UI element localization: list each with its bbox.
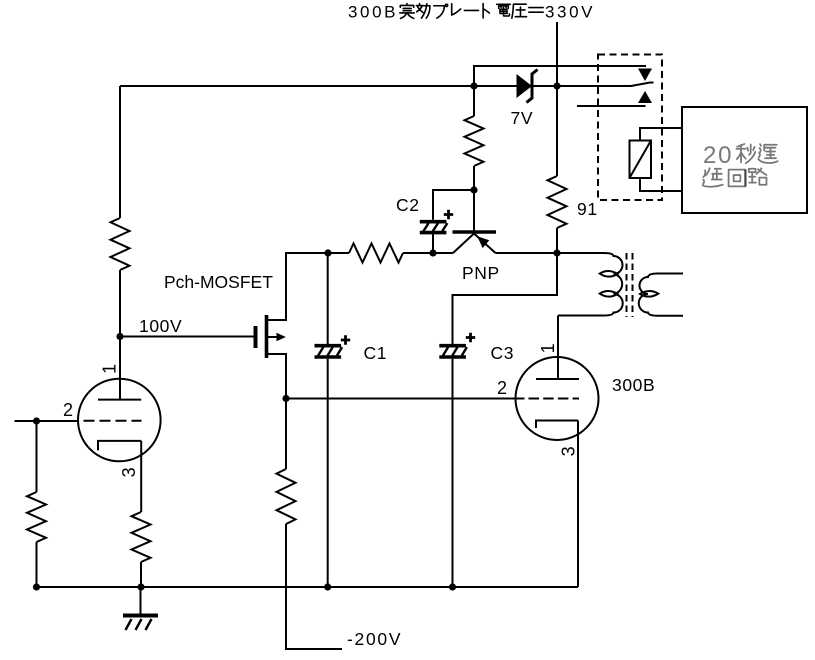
svg-text:Pch-MOSFET: Pch-MOSFET (164, 272, 273, 292)
svg-text:300B: 300B (612, 375, 655, 395)
wire: 100V gate wire (120, 336, 254, 338)
wire: R2 to ground rail (36, 542, 38, 587)
resistor R6 91 ohm (548, 176, 567, 228)
wire: zener anode drop x=474 (473, 86, 475, 116)
wire: R5 to PNP base node (473, 166, 475, 190)
svg-text:1: 1 (538, 343, 558, 354)
svg-text:91: 91 (577, 199, 598, 219)
capacitor C2 (420, 210, 453, 233)
tube 300B plate (536, 378, 579, 380)
wire: relay coil to delay box (bottom) (640, 178, 682, 191)
relay NC contact arrow (down) (638, 69, 652, 82)
tube V1 plate (98, 399, 141, 401)
relay boundary (dashed box) (598, 55, 662, 201)
transformer T1 core (dashed) (627, 253, 633, 317)
wire: C1 top lead from drain node (327, 253, 329, 344)
node C1 top / MOSFET drain (324, 249, 331, 256)
relay NO contact arrow (up) (638, 91, 652, 103)
svg-text:7V: 7V (511, 108, 534, 128)
transformer T1 primary petal lower (600, 291, 618, 297)
wire: C1 bottom lead to ground rail (327, 359, 329, 587)
node 100V gate (116, 333, 123, 340)
wire: emitter node down and across to C3 top (453, 253, 558, 344)
transistor Q2 Pch-MOSFET (256, 315, 287, 358)
svg-text:300B: 300B (348, 3, 398, 22)
resistor R5 (PNP base feed) (465, 116, 484, 166)
svg-text:2: 2 (497, 378, 508, 398)
svg-text:C1: C1 (364, 343, 388, 363)
tube 300B grid (dashed) (529, 398, 580, 400)
relay coil K1 (630, 141, 652, 179)
node zener cathode 330V rail (553, 82, 560, 89)
node PNP base / C2 top (470, 186, 477, 193)
title text: 300B jikkou plate voltage = 330V (348, 3, 595, 22)
wire: ground rail (37, 586, 579, 588)
wire: MOSFET source to node (268, 354, 286, 399)
wire: R4 to -200V terminal (286, 524, 342, 649)
wire: left rail lower to driver tube plate (119, 270, 121, 400)
node ground rail left end (33, 583, 40, 590)
resistor R7 (horizontal) (349, 244, 403, 263)
capacitor C1 (315, 335, 351, 357)
node C3 bottom on ground rail (449, 583, 456, 590)
resistor R1 (left rail) (111, 218, 130, 270)
wire: 300B cathode lead to rail (577, 421, 579, 588)
tube V1 driver envelope (78, 379, 161, 462)
wire: MOSFET drain riser to node (268, 253, 328, 320)
wire: grid-leak drop x=36.5 (36, 421, 38, 492)
node MOSFET source / 300B grid wire (282, 395, 289, 402)
wire: R7 to C2 node / PNP collector (403, 252, 453, 254)
node driver grid input (33, 417, 40, 424)
wire: PNP base lead (473, 190, 475, 231)
tube V1 cathode (98, 441, 141, 451)
wire: driver grid stub and node (15, 420, 79, 422)
svg-text:1: 1 (100, 363, 120, 374)
svg-text:100V: 100V (139, 316, 182, 336)
zener diode D1 7V (517, 70, 538, 103)
svg-text:3: 3 (559, 446, 579, 457)
wire: C2 top lead (433, 190, 474, 220)
tube 300B cathode (536, 421, 578, 429)
wire: source node down to R4 (285, 399, 287, 470)
svg-text:20: 20 (703, 142, 733, 169)
wire: C2 bottom lead (432, 234, 434, 253)
delay circuit box (682, 107, 807, 213)
tube V1 grid (dashed) (84, 420, 142, 422)
svg-text:-200V: -200V (347, 629, 402, 649)
wire: top rail y=86 from left corner to relay common contact (120, 83, 654, 87)
node zener anode rail (470, 82, 477, 89)
wire: driver cathode lead (140, 441, 142, 512)
transistor Q1 PNP (453, 232, 497, 253)
wire: PNP emitter to 330V node (496, 252, 558, 254)
wire: node to horizontal resistor R7 (328, 252, 349, 254)
transformer T1 primary winding (557, 253, 623, 316)
node C2 bottom on drive wire (429, 249, 436, 256)
wire: 91 ohm to emitter node (556, 228, 558, 253)
resistor R2 (grid leak) (27, 492, 46, 542)
svg-text:C3: C3 (491, 343, 515, 363)
wire: 300B grid wire (286, 398, 525, 400)
svg-text:3: 3 (119, 467, 139, 478)
wire: C3 bottom lead to ground rail (452, 359, 454, 587)
wire: zener bypass loop to relay NC contact (474, 66, 646, 86)
transformer T1 primary petal upper (600, 271, 618, 277)
svg-text:PNP: PNP (462, 263, 500, 283)
svg-text:330V: 330V (545, 3, 595, 22)
resistor R4 (source load) (277, 469, 296, 524)
transformer T1 secondary winding (639, 274, 683, 316)
wire: left rail vertical x=120 upper segment (119, 86, 121, 218)
capacitor C3 (439, 333, 475, 357)
node ground rail at ground symbol (137, 583, 144, 590)
tube 300B envelope (516, 357, 599, 440)
svg-text:C2: C2 (396, 195, 420, 215)
transformer T1 secondary petal (640, 291, 658, 297)
wire: R3 to ground rail (140, 562, 142, 587)
node C1 bottom on ground rail (324, 583, 331, 590)
ground (123, 587, 158, 630)
node emitter / 91 ohm / primary (553, 249, 560, 256)
resistor R3 (driver cathode) (132, 512, 151, 562)
wire: relay coil to delay box (top) (640, 128, 682, 141)
relay NO contact wire (577, 105, 646, 107)
delay box label: 20-second delay circuit (703, 142, 778, 187)
wire: 300B plate lead from transformer (557, 316, 559, 380)
wire: 330V vertical drop from title (556, 22, 558, 176)
svg-text:2: 2 (63, 400, 74, 420)
